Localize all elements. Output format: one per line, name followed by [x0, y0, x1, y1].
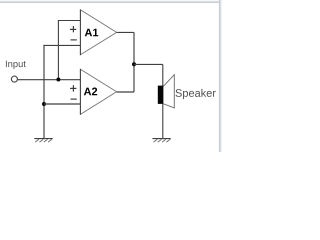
wire A1 plus input: [58, 20, 81, 22]
speaker LS1: [158, 75, 175, 108]
wire A2 minus input: [44, 103, 80, 105]
op-amp A2: [80, 69, 116, 115]
wire A1 output: [117, 31, 134, 33]
wire A1 minus input: [43, 44, 80, 46]
wire speaker drop: [162, 64, 164, 86]
wire input to A2 plus: [18, 79, 81, 81]
A2 plus mark: [70, 85, 76, 91]
ground left: [34, 139, 52, 143]
op-amp A1: [80, 9, 116, 55]
A1 minus mark: [71, 39, 77, 41]
wire output bus: [133, 32, 135, 92]
label Speaker: [176, 89, 216, 99]
wire riser to A1 plus: [57, 21, 59, 80]
A1 plus mark: [70, 26, 76, 32]
node ground junction: [42, 102, 46, 106]
wire A2 output: [117, 91, 134, 93]
wire speaker to ground: [162, 104, 164, 139]
top frame border: [0, 0, 222, 2]
right frame border: [219, 0, 221, 152]
node output junction: [132, 62, 136, 66]
ground right: [152, 139, 170, 143]
label Input: [6, 61, 26, 69]
A2 minus mark: [71, 98, 77, 100]
wire ground rail: [43, 45, 45, 139]
wire bus to speaker: [134, 63, 163, 65]
node input junction: [56, 78, 60, 82]
input terminal: [11, 76, 17, 82]
